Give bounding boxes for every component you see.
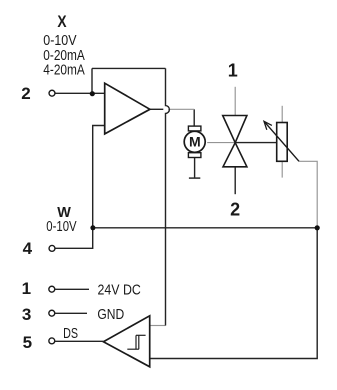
svg-text:2: 2 — [21, 84, 30, 103]
svg-text:2: 2 — [230, 200, 240, 220]
svg-text:0-10V: 0-10V — [46, 219, 77, 235]
svg-text:GND: GND — [97, 307, 124, 323]
svg-text:24V DC: 24V DC — [98, 282, 141, 298]
svg-text:3: 3 — [22, 305, 31, 324]
svg-text:1: 1 — [228, 60, 238, 80]
svg-text:5: 5 — [23, 333, 32, 352]
svg-text:0-20mA: 0-20mA — [43, 48, 85, 64]
svg-text:0-10V: 0-10V — [43, 33, 77, 49]
svg-text:DS: DS — [63, 326, 78, 342]
svg-text:4-20mA: 4-20mA — [43, 63, 85, 79]
svg-text:X: X — [57, 13, 66, 31]
svg-text:M: M — [189, 134, 201, 149]
svg-text:4: 4 — [23, 239, 33, 258]
svg-text:1: 1 — [22, 279, 31, 298]
